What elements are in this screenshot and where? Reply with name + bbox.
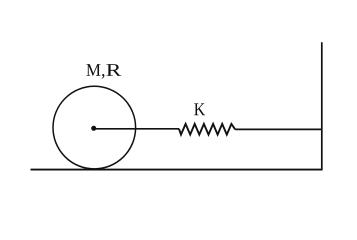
ground <box>31 169 323 171</box>
wheel M,R <box>53 86 136 169</box>
label M,R <box>86 64 121 79</box>
wire spring to wall <box>235 128 322 130</box>
center dot <box>91 126 96 131</box>
label K <box>194 103 205 115</box>
wire center to spring <box>94 128 179 130</box>
wall <box>321 42 323 170</box>
spring K <box>179 124 235 135</box>
